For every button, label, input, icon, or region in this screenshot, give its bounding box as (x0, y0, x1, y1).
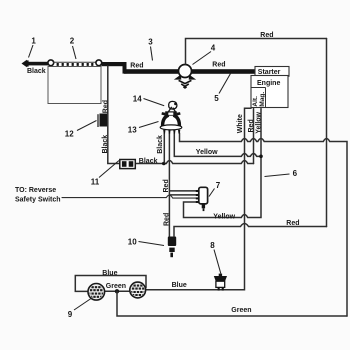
svg-text:Blue: Blue (102, 270, 117, 277)
bullet connector (item 10) (168, 237, 176, 258)
wire red right side down (326, 39, 328, 227)
svg-text:Yellow: Yellow (255, 111, 262, 133)
svg-text:13: 13 (128, 125, 137, 134)
engine box U1 (251, 76, 288, 108)
wire red solenoid top loop (186, 39, 327, 65)
fusible link strip (item 2) (53, 62, 97, 66)
svg-text:1: 1 (31, 36, 36, 45)
interlock switch (item 8) (214, 274, 227, 291)
svg-text:Black: Black (27, 68, 46, 75)
svg-text:6: 6 (293, 169, 298, 178)
svg-text:Black: Black (102, 135, 109, 154)
svg-text:2: 2 (70, 36, 75, 45)
wire toggle pin2 (170, 194, 196, 196)
battery cable plug P1 (item 1) (22, 60, 29, 67)
svg-text:Yellow: Yellow (196, 149, 218, 156)
headlamp right (130, 282, 146, 298)
svg-text:Red: Red (103, 100, 110, 113)
wire key switch pin2 red down to connector 10 (168, 133, 170, 237)
node yellow junction (259, 155, 263, 159)
svg-text:7: 7 (216, 181, 221, 190)
svg-text:5: 5 (214, 94, 219, 103)
svg-text:10: 10 (128, 237, 137, 246)
svg-text:Green: Green (106, 283, 126, 290)
svg-text:9: 9 (68, 310, 73, 319)
wire step down (123, 62, 127, 74)
starter tab box (255, 67, 289, 77)
wire red accessory vertical (item 12 branch) (108, 66, 120, 164)
wire white from engine (146, 108, 251, 290)
svg-text:Alt.: Alt. (252, 96, 259, 107)
svg-text:Red: Red (163, 213, 170, 226)
wire green ground return (117, 291, 347, 316)
svg-text:Green: Green (231, 307, 251, 314)
svg-text:3: 3 (148, 37, 153, 46)
wire thick black to solenoid (item 3 Red) (124, 69, 178, 74)
svg-text:Red: Red (260, 32, 273, 39)
ground symbol (179, 80, 192, 88)
wire yellow from engine (184, 109, 262, 218)
svg-text:Black: Black (139, 158, 158, 165)
wire red from engine (kill) (253, 109, 255, 164)
wire thick black battery cable (26, 62, 49, 66)
svg-text:White: White (237, 114, 244, 133)
diode module (item 12) (98, 114, 107, 128)
svg-text:Red: Red (130, 62, 143, 69)
headlamp circuit wires (75, 276, 146, 292)
svg-text:Red: Red (212, 61, 225, 68)
wire yellow from key switch (174, 133, 261, 156)
wire red horizontal to connector 10 (174, 224, 327, 236)
svg-text:Engine: Engine (257, 80, 280, 87)
ring terminal right (96, 60, 102, 66)
svg-text:8: 8 (210, 241, 215, 250)
wire black from connector to key switch (135, 161, 253, 164)
wire between lamps (105, 290, 130, 292)
svg-text:TO: Reverse: TO: Reverse (15, 187, 56, 194)
svg-text:Safety Switch: Safety Switch (15, 196, 61, 203)
svg-text:12: 12 (65, 129, 74, 138)
ignition key switch (item 13) (160, 111, 182, 133)
svg-text:4: 4 (211, 43, 216, 52)
wire to reverse safety switch (62, 195, 196, 198)
svg-text:Red: Red (286, 220, 299, 227)
svg-text:Red: Red (248, 119, 255, 132)
svg-text:Yellow: Yellow (213, 214, 235, 221)
ring terminal left (48, 60, 54, 66)
key (item 14) (168, 101, 177, 112)
node lamp junction (115, 289, 119, 293)
headlamp left (item 9) (88, 284, 105, 301)
svg-text:Red: Red (163, 179, 170, 192)
svg-text:14: 14 (133, 94, 142, 103)
toggle switch (item 7) (196, 187, 208, 211)
connector block (item 11) (120, 160, 136, 169)
wire lights feed from key switch (180, 133, 348, 316)
battery box (48, 67, 101, 104)
svg-text:Black: Black (157, 135, 164, 154)
svg-text:Mag.: Mag. (259, 92, 266, 107)
node black junction (162, 162, 166, 166)
wire toggle pin1 (170, 190, 196, 192)
solenoid (item 4) (174, 65, 196, 80)
svg-text:Blue: Blue (172, 282, 187, 289)
svg-text:11: 11 (91, 177, 100, 186)
wire key switch pin1 black (163, 133, 165, 163)
wire thick black to step (102, 62, 126, 66)
wire thick red solenoid to starter (item 5) (192, 69, 256, 74)
